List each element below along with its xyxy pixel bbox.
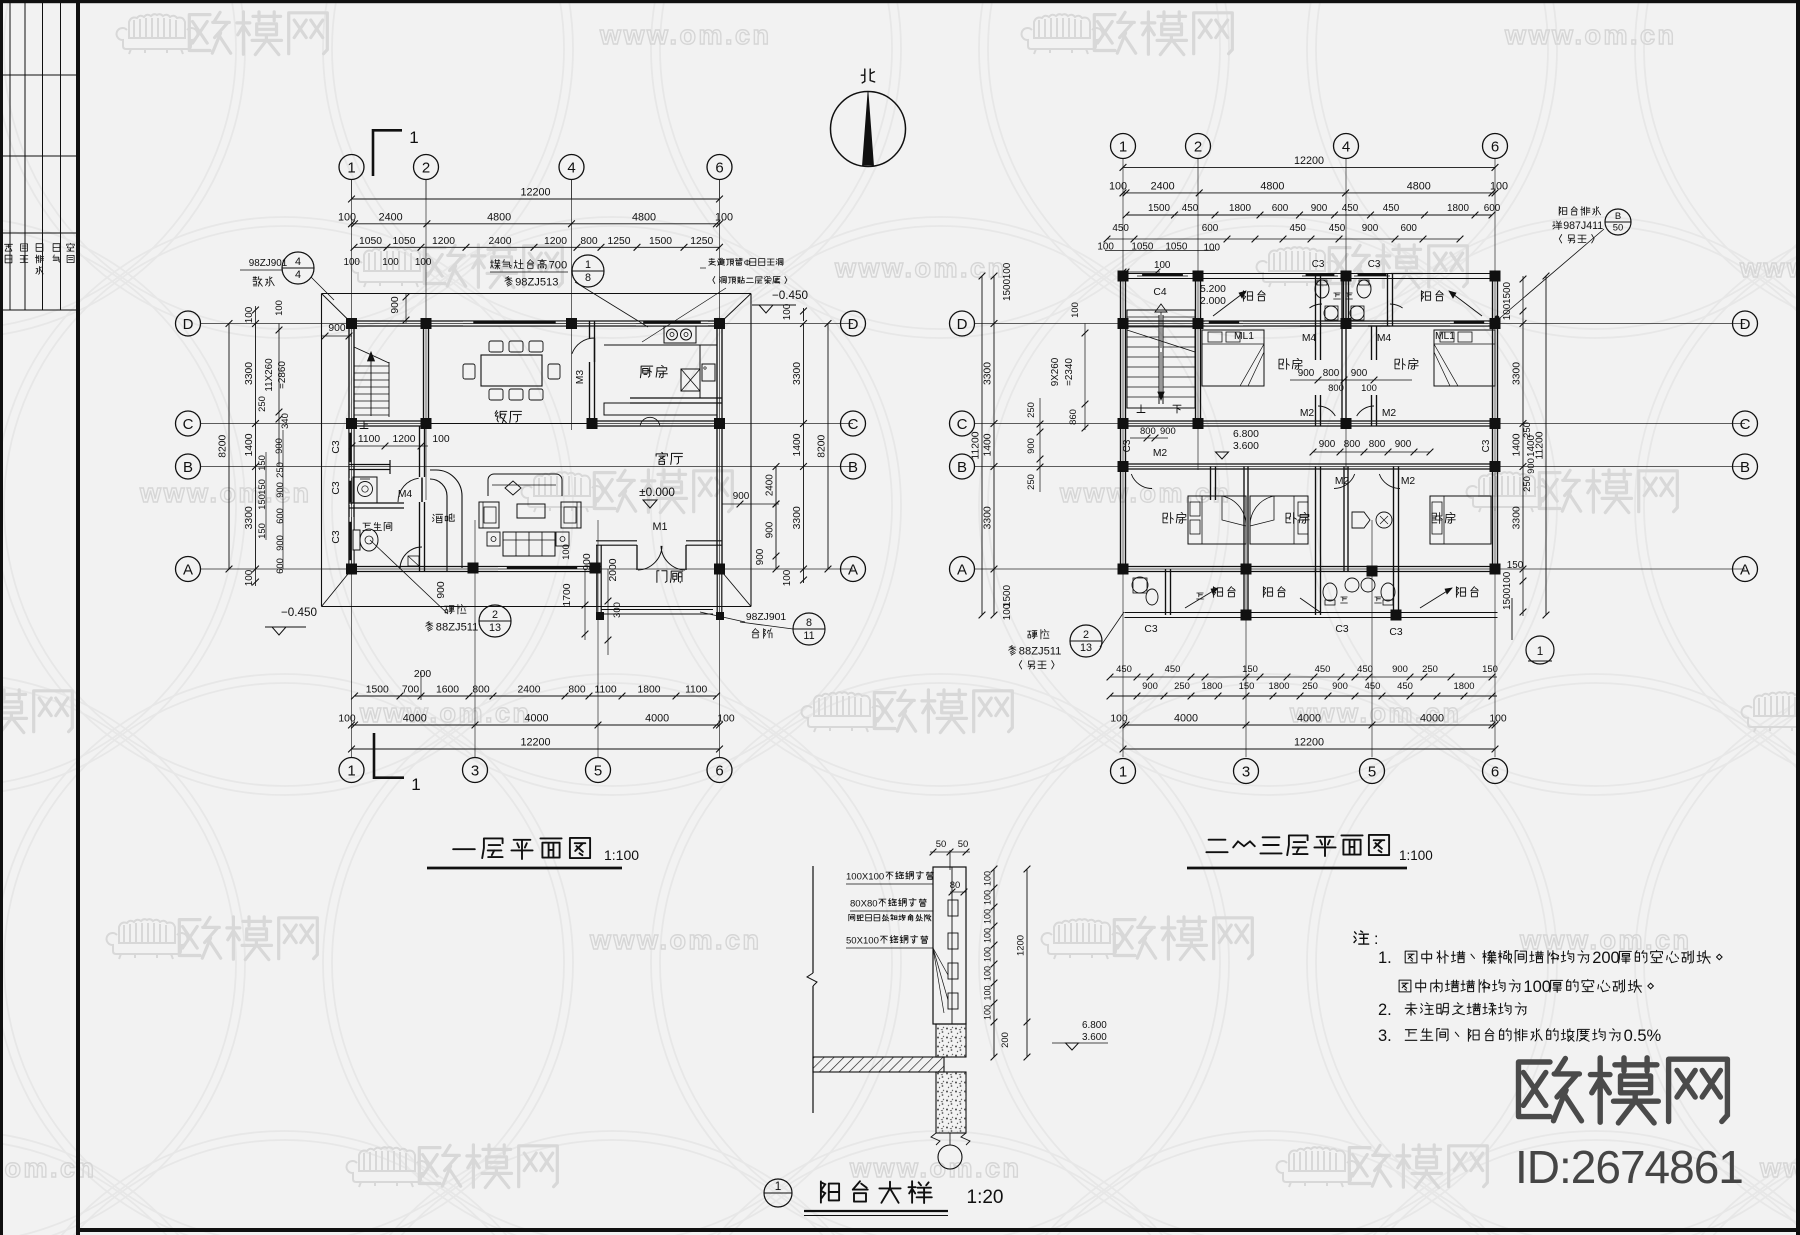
svg-text:900: 900 xyxy=(1142,681,1158,692)
svg-text::: : xyxy=(1374,931,1378,948)
svg-text:450: 450 xyxy=(1357,664,1373,675)
svg-text:6.800: 6.800 xyxy=(1082,1020,1107,1031)
detail title xyxy=(764,1179,792,1207)
svg-text:900: 900 xyxy=(1351,368,1368,379)
svg-text:600: 600 xyxy=(1400,223,1417,234)
svg-text:340: 340 xyxy=(280,413,291,429)
svg-text:C3: C3 xyxy=(1335,624,1348,635)
left plan title xyxy=(453,848,475,850)
svg-text:C: C xyxy=(848,416,859,433)
left plan: bottom dimension rows xyxy=(355,695,717,697)
svg-text:100: 100 xyxy=(782,569,793,586)
svg-text:1:100: 1:100 xyxy=(604,847,639,863)
svg-text:M2: M2 xyxy=(1382,408,1397,419)
svg-text:D: D xyxy=(1740,316,1751,333)
annotation corridor hole xyxy=(709,258,716,265)
left plan: axis circles bottom xyxy=(339,758,364,783)
svg-text:50: 50 xyxy=(1613,223,1624,234)
svg-text:C: C xyxy=(1740,416,1751,433)
page frame xyxy=(0,0,3,1235)
svg-text:A: A xyxy=(1740,561,1750,578)
svg-text:1050: 1050 xyxy=(1165,242,1187,253)
svg-text:3300: 3300 xyxy=(1512,506,1523,529)
svg-text:100X100: 100X100 xyxy=(846,871,884,882)
left plan: outer walls xyxy=(349,320,722,322)
svg-text:C3: C3 xyxy=(1122,439,1133,452)
detail: parapet concrete top xyxy=(936,1024,966,1057)
svg-text:100: 100 xyxy=(1109,180,1127,192)
right plan bedrooms top: inner walls xyxy=(1195,326,1197,426)
svg-text:4000: 4000 xyxy=(1420,713,1444,725)
svg-text:250: 250 xyxy=(257,396,268,412)
svg-text:150: 150 xyxy=(1507,560,1524,571)
doors M4 top baths xyxy=(1309,304,1322,308)
fridge xyxy=(702,364,715,381)
svg-text:1400: 1400 xyxy=(244,433,255,456)
svg-text:100: 100 xyxy=(1097,242,1114,253)
svg-text:11: 11 xyxy=(803,630,814,642)
svg-text:987J411: 987J411 xyxy=(1563,220,1603,232)
hall dims 900 800 800 900 xyxy=(1313,451,1430,453)
top bath windows C3 xyxy=(1302,274,1338,279)
svg-text:3300: 3300 xyxy=(792,506,803,529)
svg-text:11200: 11200 xyxy=(971,431,982,459)
svg-text:1500: 1500 xyxy=(1002,585,1013,607)
svg-text:1800: 1800 xyxy=(1447,203,1469,214)
svg-text:D: D xyxy=(957,316,968,333)
svg-text:300: 300 xyxy=(612,602,623,618)
svg-text:100: 100 xyxy=(983,890,993,905)
wardrobe fans xyxy=(1222,496,1246,526)
svg-text:1: 1 xyxy=(585,259,591,271)
svg-text:1250: 1250 xyxy=(607,236,630,247)
svg-text:1100: 1100 xyxy=(358,434,380,445)
svg-text:±0.000: ±0.000 xyxy=(639,486,675,499)
svg-text:12200: 12200 xyxy=(1294,737,1324,749)
svg-text:M2: M2 xyxy=(1335,476,1350,487)
svg-text:100: 100 xyxy=(983,1005,993,1020)
svg-text:600: 600 xyxy=(275,508,286,524)
svg-text:1: 1 xyxy=(347,159,355,176)
svg-text:700: 700 xyxy=(549,260,568,272)
left plan: columns xyxy=(346,318,357,329)
svg-text:1: 1 xyxy=(1537,645,1544,658)
right plan right side dims xyxy=(1522,324,1524,570)
svg-text:B: B xyxy=(1615,211,1621,222)
svg-text:100: 100 xyxy=(432,434,450,445)
right plan title xyxy=(1206,840,1227,853)
svg-text:1500: 1500 xyxy=(366,685,389,696)
svg-text:1500: 1500 xyxy=(1502,282,1513,304)
detail: railing outline xyxy=(933,867,966,1024)
svg-text:C3: C3 xyxy=(1144,624,1157,635)
svg-text:900: 900 xyxy=(1332,681,1348,692)
living room sofa set xyxy=(488,474,562,496)
svg-text:900: 900 xyxy=(1298,368,1315,379)
svg-text:900: 900 xyxy=(1526,458,1537,474)
svg-text:1800: 1800 xyxy=(1454,681,1475,692)
svg-text:1050: 1050 xyxy=(1131,242,1153,253)
svg-text:2400: 2400 xyxy=(488,236,511,247)
svg-text:3300: 3300 xyxy=(983,506,994,529)
svg-text:900: 900 xyxy=(1395,439,1412,450)
svg-text:150: 150 xyxy=(1242,664,1258,675)
svg-text:100: 100 xyxy=(1110,714,1128,725)
dining table xyxy=(481,355,542,386)
svg-text:100: 100 xyxy=(782,303,793,320)
svg-text:1.: 1. xyxy=(1378,948,1392,967)
svg-text:www.om.cn: www.om.cn xyxy=(834,253,1007,283)
right plan stair xyxy=(1127,310,1195,408)
watermarks xyxy=(117,14,198,54)
svg-text:M2: M2 xyxy=(1153,448,1168,459)
svg-text:900: 900 xyxy=(733,491,750,502)
svg-text:100: 100 xyxy=(1070,302,1081,318)
svg-text:100: 100 xyxy=(382,257,399,268)
balcony drain annotation xyxy=(1559,207,1567,216)
svg-text:4: 4 xyxy=(295,269,301,281)
svg-text:12200: 12200 xyxy=(520,187,550,199)
kitchen counter xyxy=(604,344,717,346)
svg-text:450: 450 xyxy=(1397,681,1413,692)
svg-text:600: 600 xyxy=(275,558,286,574)
beds top bedrooms xyxy=(1202,330,1264,386)
svg-text:1100: 1100 xyxy=(594,685,616,696)
beds bottom xyxy=(1188,496,1246,544)
svg-text:2: 2 xyxy=(1083,629,1089,641)
svg-text:C3: C3 xyxy=(1389,627,1402,638)
svg-text:600: 600 xyxy=(1202,223,1219,234)
svg-text:600: 600 xyxy=(1484,203,1501,214)
svg-text:=2340: =2340 xyxy=(1064,358,1075,386)
svg-text:800: 800 xyxy=(1369,439,1386,450)
bathroom cluster walls xyxy=(419,426,421,477)
svg-text:900: 900 xyxy=(390,296,401,314)
svg-text:50: 50 xyxy=(958,839,969,850)
porch label xyxy=(657,571,667,583)
svg-text:C: C xyxy=(957,416,968,433)
svg-text:100: 100 xyxy=(983,909,993,924)
svg-text:C3: C3 xyxy=(1312,259,1325,270)
svg-text:B: B xyxy=(1740,459,1750,476)
svg-text:100: 100 xyxy=(1502,571,1513,588)
svg-text:3: 3 xyxy=(471,762,479,779)
svg-text:www.om.cn: www.om.cn xyxy=(1059,478,1232,508)
left plan: interior walls xyxy=(423,321,425,426)
detail: balusters xyxy=(948,900,958,916)
svg-text:800: 800 xyxy=(1140,426,1156,437)
corridor dims 1100 1200 100 xyxy=(352,445,428,447)
svg-text:4000: 4000 xyxy=(1297,713,1321,725)
porch walls xyxy=(596,545,598,614)
svg-text:1:20: 1:20 xyxy=(967,1187,1004,1208)
svg-text:C3: C3 xyxy=(331,440,342,453)
svg-text:1800: 1800 xyxy=(1229,203,1251,214)
svg-text:3: 3 xyxy=(1242,763,1250,780)
svg-text:1: 1 xyxy=(409,128,418,147)
svg-text:4: 4 xyxy=(567,159,575,176)
svg-text:98ZJ901: 98ZJ901 xyxy=(746,612,787,623)
svg-text:ML1: ML1 xyxy=(1435,331,1455,342)
svg-text:ID:2674861: ID:2674861 xyxy=(1515,1141,1743,1193)
svg-text:1100: 1100 xyxy=(685,685,707,696)
bottom bedrooms inner walls xyxy=(1343,467,1345,572)
balcony doors ML1 openings xyxy=(1205,321,1243,326)
bottom bath fixtures xyxy=(1132,577,1148,593)
svg-text:4000: 4000 xyxy=(403,713,427,725)
svg-text:50: 50 xyxy=(936,839,947,850)
svg-text:1600: 1600 xyxy=(436,685,459,696)
svg-text:3300: 3300 xyxy=(983,362,994,385)
detail: right dim chains xyxy=(993,869,995,1022)
svg-text:M3: M3 xyxy=(575,370,586,385)
balcony arrows xyxy=(1213,291,1246,316)
svg-text:1: 1 xyxy=(1119,138,1127,155)
svg-text:900: 900 xyxy=(1311,203,1328,214)
svg-text:D: D xyxy=(848,316,859,333)
svg-text:88ZJ511: 88ZJ511 xyxy=(1019,646,1062,658)
left plan: roof overhang outline xyxy=(322,293,752,295)
svg-text:ML1: ML1 xyxy=(1234,331,1254,342)
annotation gas stove xyxy=(490,260,500,270)
svg-text:www.om.cn: www.om.cn xyxy=(359,698,532,728)
row4 xyxy=(1107,238,1460,240)
svg-text:100: 100 xyxy=(1361,383,1377,394)
svg-text:4800: 4800 xyxy=(487,211,511,223)
right plan: top dimension rows xyxy=(1123,166,1495,168)
svg-text:100: 100 xyxy=(717,714,735,725)
svg-text:1: 1 xyxy=(411,775,420,794)
svg-text:1500: 1500 xyxy=(1148,203,1170,214)
svg-text:C3: C3 xyxy=(1368,259,1381,270)
svg-text:1800: 1800 xyxy=(1269,681,1290,692)
svg-text:−0.450: −0.450 xyxy=(772,289,809,302)
svg-text:450: 450 xyxy=(1182,203,1199,214)
left plan: axis letter circles xyxy=(176,311,201,336)
svg-text:450: 450 xyxy=(1116,664,1132,675)
toilet xyxy=(353,530,360,550)
svg-text:B: B xyxy=(183,459,193,476)
svg-text:100: 100 xyxy=(983,871,993,886)
right plan: balcony top slab xyxy=(1121,273,1498,275)
svg-text:www.om.cn: www.om.cn xyxy=(589,925,762,955)
svg-text:250: 250 xyxy=(1522,422,1533,438)
svg-text:100: 100 xyxy=(343,257,360,268)
svg-text:3300: 3300 xyxy=(1512,362,1523,385)
svg-text:1200: 1200 xyxy=(1016,935,1027,956)
right plan: grid lines xyxy=(1122,158,1124,757)
svg-text:C3: C3 xyxy=(331,481,342,494)
svg-text:100: 100 xyxy=(338,211,356,223)
svg-text:900: 900 xyxy=(1319,439,1336,450)
label keting xyxy=(656,452,667,464)
C-row beam and walls xyxy=(349,420,428,422)
svg-text:1200: 1200 xyxy=(432,236,455,247)
svg-text:www.om.cn: www.om.cn xyxy=(1759,1153,1800,1183)
svg-text:200: 200 xyxy=(1000,1032,1011,1048)
svg-text:www.om.cn: www.om.cn xyxy=(599,20,772,50)
svg-text:M4: M4 xyxy=(1302,333,1317,344)
svg-text:450: 450 xyxy=(1365,681,1381,692)
svg-text:1200: 1200 xyxy=(544,236,567,247)
bedroom labels top xyxy=(1279,359,1289,370)
svg-text:2400: 2400 xyxy=(379,211,403,223)
svg-text:6.800: 6.800 xyxy=(1233,429,1259,440)
right plan: outer side walls xyxy=(1120,274,1122,572)
svg-text:1800: 1800 xyxy=(637,685,660,696)
svg-text:C4: C4 xyxy=(1153,287,1166,298)
stove xyxy=(664,326,696,343)
svg-text:C3: C3 xyxy=(331,530,342,543)
svg-text:250: 250 xyxy=(1026,474,1037,490)
svg-text:250: 250 xyxy=(1522,476,1533,492)
svg-text:200: 200 xyxy=(414,669,432,680)
A-row wall right plan xyxy=(1121,566,1498,568)
svg-text:1800: 1800 xyxy=(1202,681,1223,692)
svg-text:8: 8 xyxy=(585,272,591,284)
svg-text:80X80: 80X80 xyxy=(850,898,878,909)
svg-text:900: 900 xyxy=(765,521,776,538)
svg-text:900: 900 xyxy=(1362,223,1379,234)
svg-text:2400: 2400 xyxy=(765,474,776,496)
detail: left wall line with break xyxy=(812,866,814,973)
svg-text:2400: 2400 xyxy=(517,685,540,696)
svg-text:6: 6 xyxy=(715,159,723,176)
svg-text:98ZJ513: 98ZJ513 xyxy=(515,277,558,289)
right plan: axis letter circles xyxy=(950,311,975,336)
svg-text:100: 100 xyxy=(1154,260,1171,271)
svg-text:450: 450 xyxy=(1165,664,1181,675)
site logo xyxy=(1519,1059,1582,1121)
svg-text:12200: 12200 xyxy=(520,737,550,749)
svg-text:100: 100 xyxy=(983,966,993,981)
zhuanwei annotation left plan xyxy=(445,606,455,614)
svg-text:900: 900 xyxy=(328,323,346,334)
inner dims 900 800 900 xyxy=(1290,379,1412,381)
detail: centerline xyxy=(949,850,951,870)
stair left plan xyxy=(388,362,390,417)
svg-text:6: 6 xyxy=(715,762,723,779)
left plan: section mark bottom xyxy=(373,733,376,779)
door M4 xyxy=(398,478,419,502)
room label kitchen xyxy=(640,366,652,378)
svg-text:5.200: 5.200 xyxy=(1200,284,1226,295)
svg-text:900: 900 xyxy=(1160,426,1176,437)
svg-text:100: 100 xyxy=(274,300,285,316)
svg-text:13: 13 xyxy=(1080,642,1092,654)
svg-text:M2: M2 xyxy=(1401,476,1416,487)
detail: bottom circle xyxy=(949,1133,951,1145)
svg-text:800: 800 xyxy=(1323,368,1340,379)
small bath shapes bottom mid xyxy=(1352,512,1370,528)
svg-text:C3: C3 xyxy=(1481,439,1492,452)
M1 wall xyxy=(596,540,637,542)
svg-text:3300: 3300 xyxy=(244,362,255,385)
svg-text:6: 6 xyxy=(1491,763,1499,780)
svg-text:4: 4 xyxy=(1342,138,1350,155)
kitchen sink xyxy=(681,369,700,391)
svg-text:900: 900 xyxy=(1026,438,1037,454)
left plan: axis grid lines xyxy=(351,180,353,757)
left plan: top dimension rows xyxy=(352,198,720,200)
svg-text:150: 150 xyxy=(1482,664,1498,675)
bottom balcony labels xyxy=(1213,587,1222,598)
svg-text:4: 4 xyxy=(295,256,301,268)
svg-text:100: 100 xyxy=(1002,262,1013,279)
svg-text:8200: 8200 xyxy=(218,434,229,457)
svg-text:M4: M4 xyxy=(398,489,413,500)
door M3 xyxy=(594,338,596,362)
svg-text:800: 800 xyxy=(472,685,490,696)
svg-text:3300: 3300 xyxy=(244,506,255,529)
svg-text:250: 250 xyxy=(1026,402,1037,418)
left plan: axis circles top xyxy=(339,155,364,180)
svg-text:12200: 12200 xyxy=(1294,155,1324,167)
svg-text:1250: 1250 xyxy=(690,236,713,247)
north arrow xyxy=(831,92,906,167)
svg-text:www.om.cn: www.om.cn xyxy=(1739,253,1800,283)
svg-text:B: B xyxy=(957,459,967,476)
svg-text:4800: 4800 xyxy=(1407,180,1431,192)
right plan left side dims xyxy=(981,276,983,615)
svg-text:5: 5 xyxy=(1368,763,1376,780)
svg-text:800: 800 xyxy=(580,236,598,247)
shower corner xyxy=(400,547,422,569)
M1 double door xyxy=(636,545,638,570)
left plan: left side dims xyxy=(228,324,230,570)
svg-text:1500: 1500 xyxy=(649,236,672,247)
windows C3 left wall xyxy=(349,429,355,466)
svg-text:13: 13 xyxy=(489,622,501,634)
svg-text:1400: 1400 xyxy=(983,433,994,456)
svg-text:4800: 4800 xyxy=(1260,180,1284,192)
svg-text:800: 800 xyxy=(1344,439,1361,450)
svg-text:0.5%: 0.5% xyxy=(1624,1026,1662,1045)
room label bathroom xyxy=(363,523,371,530)
svg-text:900: 900 xyxy=(436,581,447,599)
svg-text:2: 2 xyxy=(492,609,498,621)
svg-text:9X260: 9X260 xyxy=(1050,357,1061,386)
right plan columns xyxy=(1118,271,1129,282)
svg-text:www.om.cn: www.om.cn xyxy=(1504,20,1677,50)
svg-text:250: 250 xyxy=(1174,681,1190,692)
svg-text:8: 8 xyxy=(806,617,812,629)
svg-text:200: 200 xyxy=(1592,948,1620,967)
detail: wall below xyxy=(936,1072,966,1133)
svg-text:2.000: 2.000 xyxy=(1200,296,1226,307)
svg-text:11X260: 11X260 xyxy=(264,358,275,392)
svg-text:100: 100 xyxy=(983,947,993,962)
svg-text:2400: 2400 xyxy=(1151,180,1175,192)
svg-text:1200: 1200 xyxy=(392,434,415,445)
svg-text:5: 5 xyxy=(594,762,602,779)
svg-text:50X100: 50X100 xyxy=(846,935,879,946)
room label dining xyxy=(495,411,507,423)
svg-text:C: C xyxy=(183,416,194,433)
svg-text:450: 450 xyxy=(1289,223,1306,234)
svg-text:100: 100 xyxy=(983,985,993,1000)
svg-text:800: 800 xyxy=(568,685,586,696)
bottom balconies outer xyxy=(1125,612,1498,614)
svg-text:900: 900 xyxy=(582,553,593,571)
zhuanwei annotation right plan xyxy=(1028,631,1038,639)
svg-text:2.: 2. xyxy=(1378,1000,1392,1019)
svg-text:4000: 4000 xyxy=(645,713,669,725)
svg-text:250: 250 xyxy=(1422,664,1438,675)
svg-text:900: 900 xyxy=(275,482,286,498)
svg-text:M2: M2 xyxy=(1300,408,1315,419)
svg-text:450: 450 xyxy=(1329,223,1346,234)
